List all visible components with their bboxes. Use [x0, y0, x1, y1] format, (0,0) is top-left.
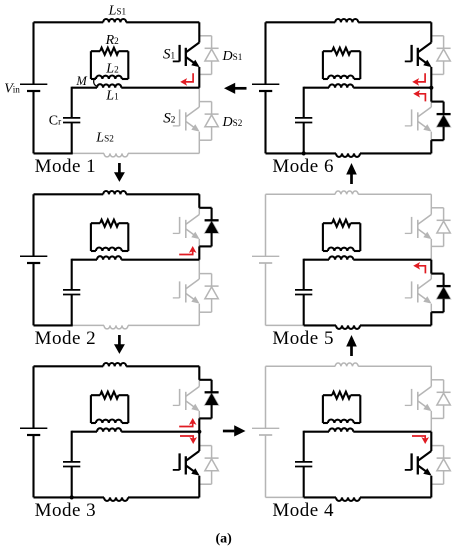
Mode 4: wire bottom right — [304, 496, 432, 498]
label M coupling — [75, 74, 96, 88]
Mode 5: wire bottom right — [304, 324, 432, 326]
Mode 6: wire left — [264, 22, 266, 153]
Mode 4: gray left wire — [265, 366, 267, 497]
Mode 6: junction node Cr-bottom — [302, 151, 306, 155]
Mode 4: wire Cr branch — [303, 431, 305, 498]
Mode 6: gray IGBT S1 — [405, 43, 432, 68]
Mode 1: gray bottom wire — [34, 152, 200, 154]
Mode 3: wire bottom right — [72, 496, 200, 498]
label Mode 5 — [272, 328, 334, 349]
Mode 5: current arrow red — [413, 262, 425, 273]
Mode 3: gray left wire — [33, 366, 35, 497]
label Cr — [49, 114, 61, 129]
Mode 2: inductor LS1 — [103, 191, 126, 194]
Mode 2: wire L1 row — [72, 259, 200, 261]
Mode 3: gray top wire — [34, 365, 200, 367]
Mode 2: gray left wire — [33, 194, 35, 325]
arrow Mode2 to Mode3 — [114, 335, 125, 354]
arrow Mode3 to Mode4 — [223, 425, 246, 436]
Mode 4: gray inductor LS2 — [336, 497, 360, 501]
svg-text:Vin: Vin — [4, 81, 20, 96]
Mode 4: capacitor Cr — [295, 462, 312, 467]
Mode 5: wire L1 row — [304, 259, 432, 261]
label R2 — [105, 33, 120, 48]
Mode 6: battery Vin — [252, 84, 279, 91]
arrow Mode1 to Mode2 — [114, 163, 125, 182]
Mode 2: wire left — [32, 194, 34, 325]
Mode 6: gray top wire — [266, 21, 432, 23]
label DS2 — [222, 115, 243, 130]
svg-text:Mode 3: Mode 3 — [35, 500, 97, 521]
Mode 6: junction node midpoint — [429, 86, 433, 90]
Mode 3: inductor LS2 — [104, 497, 128, 501]
svg-text:DS2: DS2 — [222, 115, 243, 130]
Mode 4: gray diode DS1 — [431, 380, 450, 419]
Mode 3: transistor S2 conducting — [173, 432, 200, 498]
Mode 3: battery Vin — [20, 428, 47, 435]
Mode 5: gray IGBT S1 — [405, 215, 432, 240]
label Mode 3 — [35, 500, 97, 521]
Mode 2: wire bottom left — [34, 324, 73, 326]
label Mode 4 — [272, 500, 334, 521]
Mode 4: gray bottom wire — [266, 496, 432, 498]
Mode 2: current arrow red — [179, 246, 196, 255]
Mode 2: battery Vin — [20, 256, 47, 263]
Mode 3: wire L1 row — [72, 431, 200, 433]
Mode 6: inductor LS2 — [336, 153, 360, 157]
svg-text:M: M — [75, 74, 87, 88]
Mode 6: inductor L1 — [329, 84, 353, 88]
Mode 2: capacitor Cr — [63, 290, 80, 295]
svg-text:Cr: Cr — [49, 114, 61, 129]
Mode 1: gray right branch wires — [198, 22, 200, 153]
Mode 3: gray right branch wires — [198, 366, 200, 497]
Mode 1: battery Vin — [20, 84, 47, 91]
Mode 3: gray bottom wire — [34, 496, 200, 498]
arrow Mode6 to Mode1 — [224, 83, 247, 94]
Mode 2: resistor R2 and box — [91, 220, 128, 251]
Mode 6: diode DS2 conducting — [431, 88, 450, 154]
Mode 5: gray inductor LS2 — [336, 325, 360, 329]
Mode 5: gray left wire — [265, 194, 267, 325]
Mode 5: gray diode DS1 — [431, 208, 450, 247]
Mode 4: wire L1 row — [304, 431, 432, 433]
Mode 1: inductor LS1 — [103, 19, 126, 22]
Mode 3: capacitor Cr — [63, 462, 80, 467]
Mode 5: inductor L2 — [328, 248, 354, 251]
Mode 6: current arrow red upper — [412, 73, 425, 85]
Mode 1: gray diode DS2 — [199, 102, 218, 141]
svg-text:Mode 4: Mode 4 — [272, 500, 334, 521]
Mode 2: inductor L1 — [97, 256, 121, 260]
Mode 2: gray bottom wire — [34, 324, 200, 326]
Mode 1: gray IGBT S1 — [173, 43, 200, 68]
Mode 6: gray diode DS2 — [431, 102, 450, 141]
svg-text:L2: L2 — [105, 62, 119, 77]
label LS2 — [95, 131, 114, 146]
Mode 6: wire L1 row — [304, 87, 432, 89]
Mode 2: inductor L2 — [96, 247, 122, 251]
Mode 3: gray diode DS2 — [199, 446, 218, 485]
Mode 1: wire Cr branch — [71, 87, 73, 154]
Mode 4: gray IGBT S1 — [405, 387, 432, 412]
Mode 1: gray battery — [20, 84, 47, 91]
svg-text:DS1: DS1 — [222, 49, 243, 64]
Mode 4: current arrow red — [412, 436, 429, 444]
Mode 6: capacitor Cr — [295, 118, 312, 123]
Mode 5: gray bottom wire — [266, 324, 432, 326]
Mode 3: current arrow red lower — [180, 436, 197, 444]
Mode 5: gray diode DS2 — [431, 274, 450, 313]
Mode 1: inductor L2 — [96, 76, 122, 80]
Mode 1: gray diode DS1 — [199, 36, 218, 75]
Mode 3: inductor L1 — [97, 428, 121, 432]
Mode 2: gray right branch wires — [198, 194, 200, 325]
label DS1 — [222, 49, 243, 64]
Mode 2: gray diode DS2 — [199, 274, 218, 313]
Mode 4: gray diode DS2 — [431, 446, 450, 485]
Mode 5: gray right branch wires — [430, 194, 432, 325]
Mode 3: wire top — [34, 365, 200, 367]
Mode 5: diode DS2 conducting — [431, 260, 450, 326]
Mode 4: gray inductor LS1 — [335, 363, 358, 366]
label Mode 6 — [272, 156, 334, 177]
Mode 1: wire bottom left — [34, 152, 73, 154]
Mode 6: inductor LS1 — [335, 19, 358, 22]
label S1 — [163, 47, 176, 63]
svg-text:Mode 2: Mode 2 — [35, 328, 97, 349]
Mode 3: diode DS1 conducting — [199, 366, 218, 431]
Mode 1: inductor L1 — [97, 84, 121, 88]
Mode 2: gray IGBT S1 — [173, 215, 200, 240]
Mode 3: gray battery — [20, 428, 47, 435]
arrow Mode4 to Mode5 — [346, 335, 357, 356]
Mode 4: gray top wire — [266, 365, 432, 367]
Mode 2: diode DS1 conducting — [199, 194, 218, 259]
label Mode 1 — [35, 156, 97, 177]
Mode 6: gray diode DS1 — [431, 36, 450, 75]
Mode 6: resistor R2 and box — [323, 48, 360, 79]
label L2 — [105, 62, 119, 77]
svg-text:Mode 6: Mode 6 — [272, 156, 334, 177]
Mode 3: gray inductor LS1 — [103, 363, 126, 366]
Mode 5: inductor L1 — [329, 256, 353, 260]
svg-text:Mode 1: Mode 1 — [35, 156, 97, 177]
Mode 1: current arrow red — [180, 73, 193, 85]
Mode 2: gray battery — [20, 256, 47, 263]
svg-text:(a): (a) — [216, 532, 233, 547]
svg-text:LS2: LS2 — [95, 131, 114, 146]
label Vin — [4, 81, 20, 96]
Mode 6: gray inductor LS2 — [336, 153, 360, 157]
Mode 6: transistor S1 conducting — [405, 22, 432, 87]
Mode 1: gray IGBT S2 — [173, 107, 200, 132]
Mode 3: current arrow red upper — [179, 418, 196, 427]
Mode 3: junction node Cr-bottom — [70, 495, 74, 499]
label S2 — [163, 110, 176, 126]
svg-text:R2: R2 — [105, 33, 120, 48]
Mode 6: current arrow red lower — [413, 90, 425, 101]
Mode 6: gray right branch wires — [430, 22, 432, 153]
Mode 3: inductor L2 — [96, 420, 122, 424]
Mode 5: gray IGBT S2 — [405, 279, 432, 304]
Mode 1: resistor R2 and box — [91, 48, 128, 79]
label L1 — [105, 89, 119, 104]
Mode 1: gray top wire — [34, 21, 200, 23]
Mode 5: resistor R2 and box — [323, 220, 360, 251]
Mode 1: gray left wire — [33, 22, 35, 153]
Mode 4: gray IGBT S2 — [405, 451, 432, 476]
Mode 3: gray inductor LS2 — [104, 497, 128, 501]
Mode 6: wire bottom left — [266, 152, 305, 154]
Mode 3: gray IGBT S1 — [173, 387, 200, 412]
Mode 6: gray IGBT S2 — [405, 107, 432, 132]
Mode 5: capacitor Cr — [295, 290, 312, 295]
svg-text:Mode 5: Mode 5 — [272, 328, 334, 349]
Mode 3: wire left — [32, 366, 34, 497]
Mode 6: gray bottom wire — [266, 152, 432, 154]
Mode 1: capacitor Cr — [63, 118, 80, 123]
Mode 6: gray left wire — [265, 22, 267, 153]
Mode 5: inductor LS2 — [336, 325, 360, 329]
svg-text:LS1: LS1 — [108, 3, 127, 18]
Mode 5: wire Cr branch — [303, 259, 305, 326]
Mode 4: inductor L1 — [329, 428, 353, 432]
Mode 1: wire L1 row — [72, 87, 200, 89]
Mode 3: wire Cr branch — [71, 431, 73, 498]
Mode 3: junction node midpoint — [197, 430, 201, 434]
Mode 3: resistor R2 and box — [91, 392, 128, 423]
Mode 2: wire top — [34, 193, 200, 195]
label LS1 — [108, 3, 127, 18]
Mode 2: gray IGBT S2 — [173, 279, 200, 304]
Mode 6: gray inductor LS1 — [335, 19, 358, 22]
Mode 2: gray inductor LS1 — [103, 191, 126, 194]
Mode 3: gray diode DS1 — [199, 380, 218, 419]
Mode 6: wire top — [266, 21, 432, 23]
arrow Mode5 to Mode6 — [346, 163, 357, 184]
Mode 3: inductor LS1 — [103, 363, 126, 366]
Mode 5: gray inductor LS1 — [335, 191, 358, 194]
Mode 6: gray battery — [252, 84, 279, 91]
Mode 1: wire left — [32, 22, 34, 153]
Mode 2: gray top wire — [34, 193, 200, 195]
Mode 6: wire bottom right — [304, 152, 432, 154]
svg-text:L1: L1 — [105, 89, 119, 104]
Mode 5: gray battery — [252, 256, 279, 263]
Mode 1: gray inductor LS2 — [104, 153, 128, 157]
Mode 1: transistor S1 conducting — [173, 22, 200, 87]
Mode 4: inductor LS2 — [336, 497, 360, 501]
Mode 1: gray inductor LS1 — [103, 19, 126, 22]
Mode 4: gray right branch wires — [430, 366, 432, 497]
Mode 2: gray diode DS1 — [199, 208, 218, 247]
Mode 3: gray IGBT S2 — [173, 451, 200, 476]
Mode 6: wire Cr branch — [303, 87, 305, 154]
Mode 6: inductor L2 — [328, 75, 354, 79]
Mode 4: gray battery — [252, 428, 279, 435]
Mode 4: transistor S2 conducting — [405, 432, 432, 498]
Mode 2: gray inductor LS2 — [104, 325, 128, 329]
label Mode 2 — [35, 328, 97, 349]
label (a) — [216, 532, 233, 547]
Mode 4: inductor L2 — [328, 420, 354, 424]
Mode 2: wire Cr branch — [71, 259, 73, 326]
Mode 1: wire top — [34, 21, 200, 23]
Mode 3: wire bottom left — [34, 496, 73, 498]
Mode 5: gray top wire — [266, 193, 432, 195]
Mode 4: resistor R2 and box — [323, 392, 360, 423]
